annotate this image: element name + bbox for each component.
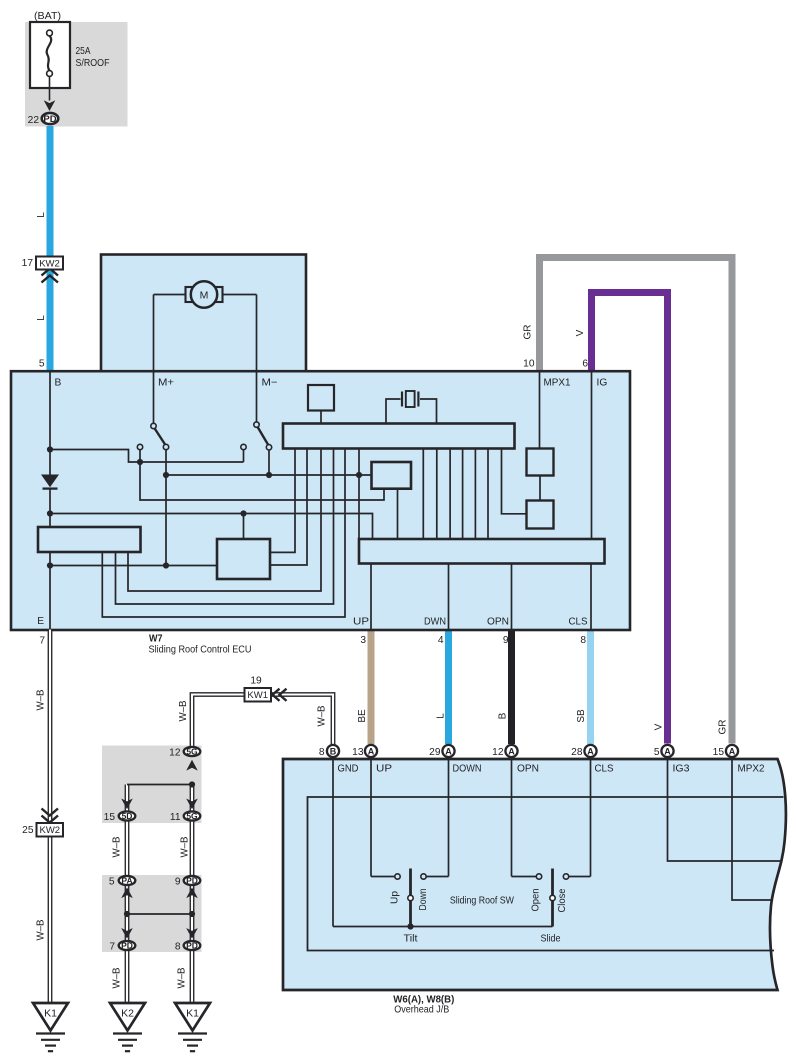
svg-text:DWN: DWN	[424, 617, 446, 628]
svg-text:A: A	[664, 746, 671, 756]
svg-text:8: 8	[580, 635, 586, 646]
svg-text:Overhead J/B: Overhead J/B	[394, 1005, 449, 1016]
svg-text:KW2: KW2	[39, 258, 60, 269]
svg-text:KW2: KW2	[40, 825, 61, 836]
svg-text:A: A	[587, 746, 594, 756]
svg-text:17: 17	[22, 258, 34, 269]
svg-text:A: A	[508, 746, 515, 756]
svg-text:PA: PA	[121, 876, 132, 886]
svg-text:SB: SB	[576, 709, 587, 723]
svg-text:(BAT): (BAT)	[34, 11, 61, 22]
svg-text:GR: GR	[718, 720, 729, 735]
svg-text:K1: K1	[186, 1008, 199, 1020]
svg-text:Close: Close	[557, 888, 568, 913]
svg-text:13: 13	[352, 747, 364, 758]
svg-text:KW1: KW1	[247, 690, 268, 701]
svg-text:15: 15	[104, 812, 116, 823]
svg-text:5: 5	[109, 877, 115, 888]
svg-text:PD: PD	[186, 876, 198, 886]
svg-text:K1: K1	[44, 1008, 57, 1020]
svg-text:V: V	[654, 723, 665, 730]
svg-text:W–B: W–B	[112, 967, 123, 988]
svg-text:5: 5	[654, 747, 660, 758]
svg-text:29: 29	[429, 747, 441, 758]
svg-text:25: 25	[22, 825, 34, 836]
svg-text:OPN: OPN	[517, 764, 539, 775]
svg-text:Sliding Roof Control ECU: Sliding Roof Control ECU	[149, 644, 252, 655]
svg-text:22: 22	[28, 115, 40, 126]
svg-text:A: A	[368, 746, 375, 756]
svg-text:Sliding Roof SW: Sliding Roof SW	[450, 896, 514, 907]
svg-text:5G: 5G	[186, 811, 198, 821]
svg-text:W–B: W–B	[178, 700, 189, 721]
svg-text:CLS: CLS	[595, 764, 614, 775]
svg-text:IG3: IG3	[673, 764, 690, 775]
svg-text:MPX2: MPX2	[738, 764, 765, 775]
svg-text:BE: BE	[357, 709, 368, 723]
svg-text:DOWN: DOWN	[453, 764, 482, 775]
svg-text:9: 9	[503, 635, 509, 646]
svg-text:6: 6	[582, 359, 588, 370]
svg-text:IG: IG	[597, 378, 608, 389]
svg-text:W7: W7	[149, 633, 163, 644]
svg-text:W–B: W–B	[180, 836, 191, 857]
svg-text:7: 7	[109, 942, 115, 953]
svg-text:A: A	[445, 746, 452, 756]
svg-text:PD: PD	[121, 941, 133, 951]
svg-text:B: B	[330, 746, 337, 756]
svg-text:M+: M+	[158, 378, 174, 389]
svg-text:3: 3	[360, 635, 366, 646]
svg-text:W–B: W–B	[36, 919, 47, 940]
svg-text:7: 7	[39, 636, 45, 647]
svg-text:PD: PD	[43, 114, 56, 125]
svg-text:S/ROOF: S/ROOF	[76, 58, 110, 69]
svg-text:9: 9	[175, 877, 181, 888]
svg-text:Up: Up	[389, 890, 400, 904]
svg-text:E: E	[37, 616, 44, 627]
svg-text:K2: K2	[121, 1008, 134, 1020]
svg-text:UP: UP	[353, 617, 369, 628]
svg-text:Slide: Slide	[541, 934, 561, 945]
svg-text:19: 19	[250, 676, 262, 687]
svg-text:W–B: W–B	[317, 705, 328, 726]
svg-text:12: 12	[492, 747, 504, 758]
svg-text:Down: Down	[418, 889, 429, 911]
svg-text:MPX1: MPX1	[544, 378, 571, 389]
svg-text:CLS: CLS	[569, 617, 588, 628]
svg-text:W–B: W–B	[177, 967, 188, 988]
svg-text:GR: GR	[523, 325, 534, 340]
svg-text:5G: 5G	[186, 747, 198, 757]
svg-text:OPN: OPN	[487, 617, 509, 628]
svg-text:L: L	[436, 713, 447, 719]
svg-text:8: 8	[175, 942, 181, 953]
svg-text:V: V	[575, 329, 586, 336]
svg-text:W–B: W–B	[36, 689, 47, 710]
svg-text:Open: Open	[530, 889, 541, 912]
svg-text:5: 5	[39, 359, 45, 370]
svg-text:L: L	[36, 315, 47, 321]
svg-text:M−: M−	[262, 378, 278, 389]
svg-text:11: 11	[170, 812, 181, 823]
svg-text:8: 8	[319, 747, 325, 758]
svg-text:B: B	[498, 712, 509, 719]
svg-text:4: 4	[438, 635, 444, 646]
svg-text:25A: 25A	[76, 46, 91, 57]
svg-text:Tilt: Tilt	[404, 934, 418, 945]
svg-text:UP: UP	[376, 764, 392, 775]
svg-text:B: B	[55, 378, 62, 389]
svg-text:28: 28	[571, 747, 583, 758]
svg-text:PD: PD	[186, 941, 198, 951]
svg-text:M: M	[200, 289, 209, 301]
svg-text:A: A	[729, 746, 736, 756]
svg-text:GND: GND	[338, 764, 359, 775]
svg-text:12: 12	[169, 748, 181, 759]
svg-text:W–B: W–B	[112, 836, 123, 857]
svg-text:5D: 5D	[122, 811, 133, 821]
svg-text:L: L	[36, 212, 47, 218]
svg-text:15: 15	[713, 747, 725, 758]
svg-text:10: 10	[523, 359, 535, 370]
